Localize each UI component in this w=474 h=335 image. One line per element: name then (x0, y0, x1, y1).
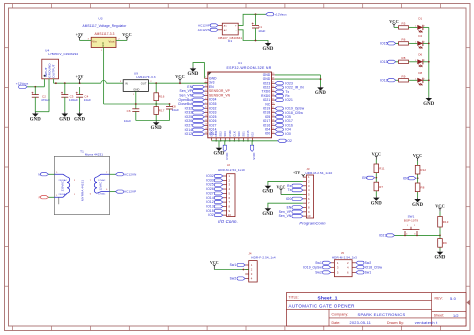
wire D8 to LED bus (423, 79, 429, 81)
power flag VCC at J4 (210, 261, 219, 270)
svg-text:HDR-M-2.54_2x3: HDR-M-2.54_2x3 (332, 255, 357, 259)
wire R9 to D8 (409, 79, 418, 81)
net flag IO0 at divider (403, 176, 419, 180)
svg-text:Vin: Vin (92, 40, 97, 44)
svg-text:+5V: +5V (76, 32, 84, 37)
power flag VCC at LED D1 (389, 19, 398, 27)
svg-text:R7: R7 (379, 185, 383, 189)
svg-text:+5V: +5V (293, 171, 300, 175)
svg-text:10uF: 10uF (172, 108, 179, 112)
net flag Sen_VP at J3 pin9 (279, 210, 303, 214)
svg-text:GND: GND (151, 126, 162, 131)
svg-text:VCC: VCC (175, 74, 184, 79)
svg-text:Tx: Tx (288, 188, 292, 192)
ESP32 right pin IO19 (263, 107, 275, 111)
svg-text:Sen_VN: Sen_VN (279, 214, 292, 218)
svg-text:+5V: +5V (76, 74, 84, 79)
junction LED bus row4 (428, 79, 430, 81)
svg-text:R9: R9 (402, 74, 406, 78)
ground at C2 (30, 112, 41, 123)
svg-text:AMS1117-3.3: AMS1117-3.3 (94, 32, 114, 36)
net flag IO13 at LED row (380, 60, 396, 64)
svg-text:VCC: VCC (210, 261, 219, 265)
net flag IO15 below ESP32 (250, 141, 256, 160)
wire U3 Vout to VCC (116, 39, 127, 41)
svg-text:R17: R17 (159, 108, 165, 112)
label I/O Conn (218, 219, 238, 224)
ESP32 right pin IO21 (263, 98, 275, 102)
net flag N input (38, 172, 48, 176)
resistor R8 (415, 178, 424, 198)
ground at LED bus (423, 97, 434, 107)
svg-text:IO13: IO13 (225, 153, 229, 160)
wire R6 to D4 (409, 42, 418, 44)
J3 pin 6 stub (303, 197, 310, 201)
J5 left pin 5 Sw2 (315, 270, 339, 274)
svg-text:IO13: IO13 (214, 130, 218, 137)
title block (286, 293, 466, 326)
ground at C3 (59, 112, 70, 123)
net flag IO13 below ESP32 (223, 141, 229, 160)
ESP32 left pin EN (204, 85, 214, 89)
power flag VCC at U3 output (122, 32, 131, 40)
svg-text:Sw2: Sw2 (230, 277, 237, 281)
svg-text:230VAC: 230VAC (61, 181, 65, 191)
net flag +12Va input (16, 82, 29, 89)
resistor R11 (374, 160, 385, 178)
svg-text:U3: U3 (98, 16, 102, 20)
svg-text:5.0: 5.0 (450, 296, 457, 301)
ground at ESP32 right (315, 86, 326, 96)
wire ESP32 right GND pins to ground (275, 75, 321, 86)
wire J3 pin7 to ground (268, 203, 303, 207)
svg-text:AC12VN: AC12VN (198, 28, 210, 32)
ground at J3 pin7 (262, 207, 273, 217)
ESP32 bottom pin SD0 (237, 131, 241, 141)
svg-text:Sw2: Sw2 (315, 270, 322, 274)
ESP32 right pin RXD0 (261, 94, 275, 98)
junction C1 top (255, 13, 257, 15)
svg-text:BSP-1079: BSP-1079 (404, 218, 418, 222)
LED D8 (417, 71, 424, 85)
junction J4 pin2 (243, 269, 245, 271)
J3 pin 7 stub (303, 201, 310, 205)
net flag IO0 (275, 132, 291, 136)
svg-text:GND: GND (210, 130, 214, 136)
junction R16 top (155, 82, 157, 84)
J4 pin 3 stub (245, 272, 253, 276)
svg-text:R5: R5 (402, 21, 406, 25)
J2 pin 8 IO13 (206, 204, 230, 208)
secondary winding 12VAC (90, 174, 110, 195)
svg-text:IN: IN (125, 81, 128, 85)
net flag IO18_ClSw (275, 111, 304, 115)
wire R5 to D1 (409, 26, 418, 28)
svg-text:IO12: IO12 (380, 78, 388, 82)
J4 pin 4 stub (245, 277, 253, 281)
J3 pin 3 stub (303, 184, 310, 188)
junctions on bottom bus (215, 140, 253, 142)
svg-text:VCC: VCC (413, 153, 422, 158)
ESP32 right pin TXD0 (262, 90, 276, 94)
label ProgramConn (299, 220, 326, 225)
ground at ESP32 pin1 (187, 67, 198, 77)
ESP32 bottom pin IO2 (251, 132, 255, 141)
svg-text:VCC: VCC (372, 151, 381, 156)
power flag VCC at R11 (372, 151, 381, 159)
J5 right pin 4 IO18_ClSw (347, 265, 383, 269)
svg-text:D1: D1 (418, 17, 422, 21)
svg-text:2023-05-11: 2023-05-11 (350, 321, 372, 325)
ESP32 bottom pin IO15 (246, 130, 250, 141)
power flag +5V on rail (76, 74, 84, 83)
net flag IO21 (275, 98, 293, 102)
svg-text:D4: D4 (418, 34, 422, 38)
ESP32 left pin 3v3 (204, 81, 214, 85)
junction C4 on rail (79, 82, 81, 84)
connector J3 HDR-M-2.54 1x10 program (306, 167, 333, 218)
wire D4 to LED bus (423, 42, 429, 44)
svg-text:Sw2: Sw2 (365, 261, 372, 265)
junction adj at C8 (169, 103, 171, 105)
svg-text:GND: GND (59, 117, 70, 122)
connector J4 HDR-F-2.54 1x4 (248, 251, 276, 282)
J3 pin 8 stub (303, 205, 310, 209)
svg-text:IO0: IO0 (403, 176, 409, 180)
svg-text:12VAC: 12VAC (99, 182, 103, 191)
ESP32 bottom pin CLK (232, 131, 236, 141)
LED D1 (417, 17, 424, 33)
wire U4 GROUND down to C2 bottom (35, 79, 49, 112)
svg-text:SD2: SD2 (219, 131, 223, 137)
wire ESP32 bottom bus (212, 140, 278, 142)
ESP32 bottom pin CMD (228, 130, 232, 140)
svg-text:SD0: SD0 (237, 131, 241, 137)
net flag Sw1 at J4 pin1 (230, 263, 246, 267)
svg-text:GND: GND (434, 256, 445, 261)
net flag IO23 (275, 81, 293, 85)
svg-text:IO21: IO21 (379, 233, 387, 237)
net flag Rx at J3 pin3 (287, 184, 303, 188)
net flag CloseBut (178, 102, 204, 106)
J3 pin 4 stub (303, 188, 310, 192)
net flag IO27 (185, 123, 205, 127)
net flag IO14 (185, 128, 205, 132)
svg-text:10uF: 10uF (124, 119, 131, 123)
bridge rectifier D1 DB107 (218, 23, 242, 43)
connector J5 HDR-M-2.54 2x3 (332, 251, 357, 277)
svg-text:GND: GND (30, 117, 41, 122)
svg-text:GND: GND (133, 87, 139, 91)
svg-text:CLK: CLK (232, 131, 236, 137)
svg-text:2: 2 (414, 225, 415, 227)
net flag Tx at J3 pin4 (288, 188, 303, 192)
svg-text:1: 1 (407, 225, 408, 227)
svg-text:Sheet:: Sheet: (434, 314, 445, 318)
ground at divider (151, 121, 162, 132)
junction C3 on rail (64, 82, 66, 84)
junction U4 output on rail (55, 82, 57, 84)
net flag IO22_IR_IN (275, 86, 304, 90)
svg-text:T1: T1 (80, 149, 84, 153)
svg-text:GND: GND (371, 201, 382, 206)
wire +12Va to U4 INPUT (27, 79, 44, 87)
J3 pin 5 stub (303, 192, 310, 196)
LED D6 (417, 53, 424, 67)
ESP32 right pin GND (263, 73, 275, 77)
wire bottom bus to ground (218, 141, 220, 147)
net flag Sw2 at J4 pin4 (230, 277, 246, 281)
LED ground bus (428, 27, 430, 96)
svg-text:IO0: IO0 (265, 132, 271, 136)
svg-text:IO2: IO2 (251, 132, 255, 137)
svg-text:HDR-M-2.54_1x10: HDR-M-2.54_1x10 (218, 168, 245, 172)
svg-text:4: 4 (406, 233, 407, 235)
svg-text:AC: AC (224, 24, 228, 27)
J2 pin 4 IO26 (206, 187, 230, 191)
J2 pin 10 IO2 (208, 213, 231, 217)
svg-text:ESP32-WROOM-32E NR: ESP32-WROOM-32E NR (226, 66, 271, 70)
svg-text:L7805CV_C2906294: L7805CV_C2906294 (48, 52, 78, 56)
svg-text:IO18_ClSw: IO18_ClSw (365, 265, 383, 269)
wire VCC to R5 (394, 26, 399, 28)
ESP32 left pin IO14 (204, 128, 216, 132)
svg-text:IO19_OpSw: IO19_OpSw (303, 265, 322, 269)
svg-text:GND: GND (423, 102, 434, 107)
net flag IO19_OpSw (275, 107, 305, 111)
net flag IO32 (185, 106, 205, 110)
ESP32 right pin GND (263, 77, 275, 81)
resistor R12 (415, 161, 426, 178)
wire J3 pin2 to ground (268, 181, 303, 184)
connector J2 HDR-M-2.54 1x10 (218, 163, 245, 216)
wire ESP32 GND pin loop (193, 63, 204, 79)
svg-text:R8: R8 (402, 56, 406, 60)
junction VCC on 3v3 rail (179, 82, 181, 84)
net flag IO2 at bottom bus right (278, 139, 292, 143)
junction C1 bottom (255, 40, 257, 42)
net flag AC12VN output (116, 172, 137, 176)
ESP32 left pin IO26 (204, 119, 216, 123)
net flag EN at J3 pin8 (287, 205, 303, 209)
svg-text:IO0: IO0 (286, 197, 292, 201)
junction LED bus row3 (428, 61, 430, 63)
ESP32 right pin NC (265, 102, 275, 106)
primary pin stub (58, 197, 60, 204)
svg-text:HDR-F-2.54_1x4: HDR-F-2.54_1x4 (251, 256, 276, 260)
wire U9 GND down (135, 91, 137, 108)
svg-text:Sheet_1: Sheet_1 (318, 295, 338, 301)
svg-text:230VAC: 230VAC (59, 193, 68, 196)
ESP32 left pin IO34 (204, 98, 216, 102)
primary winding 230VAC (54, 174, 76, 197)
svg-text:3: 3 (414, 233, 415, 235)
wire U9 OUT rail to ESP32 3v3 (148, 82, 207, 84)
capacitor C3 100uF (61, 83, 78, 112)
wire VCC to J4 pin2 (214, 269, 248, 271)
svg-text:Sw1: Sw1 (365, 270, 372, 274)
J3 pin 2 stub (303, 179, 310, 183)
svg-text:R16: R16 (159, 95, 165, 99)
svg-text:10uF: 10uF (258, 29, 265, 33)
capacitor C6 10uF (124, 109, 139, 123)
ESP32 right pin IO23 (263, 81, 275, 85)
power flag VCC at J3 pin5 (276, 184, 302, 194)
svg-text:IO15: IO15 (252, 153, 256, 160)
ground at R9 (434, 251, 445, 261)
J2 pin 1 IO32 (206, 174, 230, 178)
ESP32 right pin IO4 (265, 128, 276, 132)
net flag AC12VP input (198, 24, 218, 28)
J5 left pin 3 IO19_OpSw (303, 265, 339, 269)
svg-text:AC12VP: AC12VP (198, 24, 210, 28)
ground at R7 (371, 196, 382, 206)
net flag IO21 at switch (379, 233, 395, 237)
capacitor C1 10uF (252, 14, 266, 40)
microcontroller U1 ESP32-WROOM-32E (208, 61, 272, 138)
svg-text:VCC: VCC (389, 19, 398, 24)
LED D4 (417, 34, 424, 48)
wire U3 GND pin down (103, 48, 105, 105)
J2 pin 9 IO15 (206, 209, 230, 213)
svg-text:IO0: IO0 (285, 132, 291, 136)
svg-text:C6: C6 (127, 109, 131, 113)
junction LED bus row2 (428, 43, 430, 45)
net flag IO4 (275, 128, 291, 132)
svg-text:Date:: Date: (332, 321, 341, 325)
svg-text:10: 10 (307, 214, 311, 218)
svg-text:VCC: VCC (276, 184, 285, 189)
resistor R5 (399, 21, 409, 29)
svg-text:Company:: Company: (332, 313, 349, 317)
svg-text:10uF: 10uF (84, 98, 91, 102)
svg-text:100uF: 100uF (69, 98, 78, 102)
svg-text:OUTPUT: OUTPUT (51, 64, 55, 77)
wire N to primary (49, 172, 59, 175)
wire D6 to LED bus (423, 61, 429, 63)
net flag IO26 (185, 119, 205, 123)
svg-text:10: 10 (228, 213, 232, 217)
power flag +5V at U3 input (76, 32, 84, 40)
svg-text:1: 1 (415, 26, 416, 28)
net flag IO12 (185, 132, 205, 136)
net flag EN (187, 85, 204, 89)
junction adj at C6 (135, 103, 137, 105)
junction right gnd (320, 78, 322, 80)
svg-text:IO15: IO15 (380, 41, 388, 45)
resistor R8 (399, 56, 409, 64)
ground at DB107 (262, 42, 273, 52)
junction switch to R13 (439, 235, 441, 237)
svg-text:U1: U1 (238, 61, 242, 65)
svg-text:SD1: SD1 (241, 131, 245, 137)
svg-text:SD3: SD3 (223, 131, 227, 137)
svg-text:D6: D6 (418, 53, 422, 57)
svg-text:R13: R13 (443, 220, 449, 224)
svg-text:AC: AC (224, 29, 228, 32)
resistor R9 (438, 235, 447, 250)
voltage regulator U9 LM1117-3.3 (120, 71, 156, 96)
svg-text:VCC: VCC (122, 32, 131, 37)
voltage regulator U3 AMS1117-3.3 (83, 16, 127, 52)
svg-text:R8: R8 (421, 186, 425, 190)
ESP32 bottom pin GND (210, 130, 214, 140)
svg-text:J5: J5 (341, 251, 345, 255)
J3 pin 9 stub (303, 210, 310, 214)
net flag EN at divider (362, 176, 377, 180)
ESP32 bottom pin IO13 (214, 130, 218, 141)
wire +5V to U3 Vin (80, 39, 92, 41)
ESP32 right pin IO17 (263, 119, 275, 123)
ESP32 left pin IO33 (204, 111, 216, 115)
ESP32 left pin IO12 (204, 132, 216, 136)
svg-text:R11: R11 (379, 167, 385, 171)
wire switch row (395, 234, 440, 236)
svg-text:1/2: 1/2 (453, 314, 459, 318)
svg-text:J2: J2 (227, 163, 231, 167)
net flag AC12VN input (198, 28, 218, 32)
net flag IO12 at LED row (380, 78, 396, 82)
capacitor C8 10uF (166, 104, 179, 121)
svg-text:Drawn By:: Drawn By: (387, 321, 404, 325)
net flag OpenBut (179, 98, 205, 102)
capacitor C2 470uF (32, 87, 51, 112)
ground at C4 (74, 112, 85, 123)
svg-text:IO15: IO15 (246, 130, 250, 137)
J4 pin 2 stub (245, 268, 253, 272)
J2 pin 7 IO12 (206, 200, 230, 204)
svg-text:R9: R9 (443, 241, 447, 245)
ESP32 left pin SENSOR_VN (204, 93, 230, 97)
svg-text:IO2: IO2 (286, 139, 292, 143)
ground at ESP32 bottom (213, 147, 224, 157)
transformer T1 Myrra 44231 (54, 149, 109, 214)
svg-text:GND: GND (213, 152, 224, 157)
svg-text:MYRRA 44231: MYRRA 44231 (81, 180, 85, 201)
svg-text:REV:: REV: (435, 297, 443, 301)
net flag Sen_VN (179, 94, 204, 98)
svg-text:TITLE:: TITLE: (289, 296, 299, 300)
svg-text:GND: GND (315, 91, 326, 96)
wire DB107 minus to ground (238, 30, 268, 42)
net flag IO15 at LED row (380, 41, 396, 45)
svg-text:IO13: IO13 (380, 60, 388, 64)
svg-text:OUT: OUT (141, 81, 147, 85)
ESP32 left pin GND (204, 76, 217, 80)
junction at C2 top (34, 86, 36, 88)
svg-text:1: 1 (415, 60, 416, 62)
svg-text:+12Vaux: +12Vaux (274, 12, 287, 16)
ESP32 right pin IO18 (263, 111, 275, 115)
net flag Tx (275, 90, 290, 94)
svg-text:IO21: IO21 (285, 98, 293, 102)
svg-text:GND: GND (262, 212, 273, 217)
pushbutton SW1 BSP-1079 (403, 215, 420, 237)
net flag IO33 (185, 111, 205, 115)
svg-text:Sw1: Sw1 (230, 263, 237, 267)
ground at R8 (412, 198, 423, 208)
svg-text:-: - (236, 29, 237, 32)
junction mid divider (155, 103, 157, 105)
svg-text:D8: D8 (418, 71, 422, 75)
wire adj node horizontal (104, 103, 170, 105)
svg-text:R6: R6 (402, 37, 406, 41)
svg-text:12VAC: 12VAC (98, 193, 106, 196)
J2 pin 6 IO14 (206, 196, 230, 200)
ESP32 right pin IO16 (263, 123, 275, 127)
ground at J3 pin2 (262, 185, 273, 195)
net flag AC12VP output (116, 190, 137, 194)
